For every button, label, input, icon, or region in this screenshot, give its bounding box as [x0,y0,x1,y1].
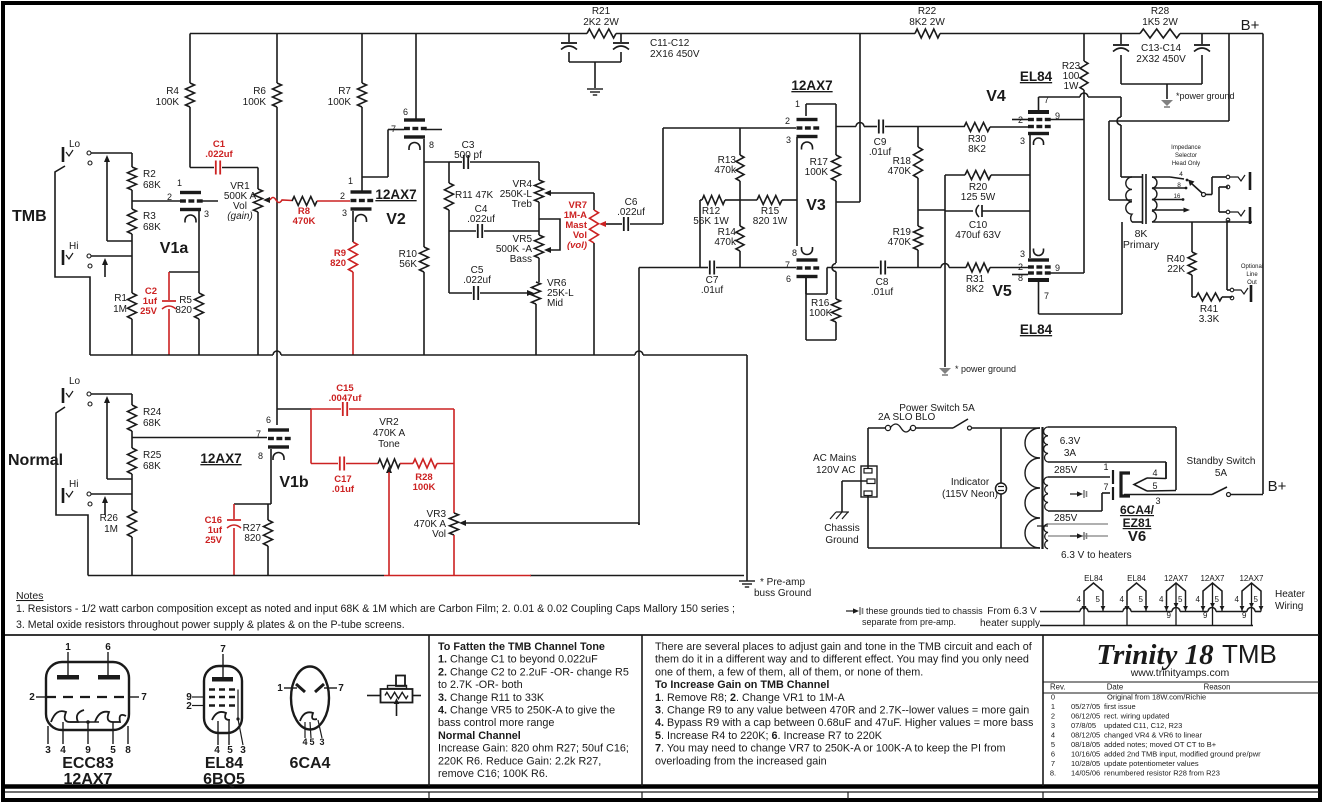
potentiometer VR1 500K A Vol (gain) [257,168,259,190]
wire V3 cathodes common [796,137,798,246]
svg-text:VR2: VR2 [379,417,399,428]
svg-text:25V: 25V [205,535,223,546]
pentode V4 [1028,110,1049,114]
svg-text:.01uf: .01uf [871,287,893,298]
wire R2-R3 junction to grid [131,190,133,209]
potentiometer VR6 25K-L Mid [532,282,541,304]
svg-text:to 2.7K -OR- both: to 2.7K -OR- both [438,679,523,691]
wire C11-C12 join [569,61,621,63]
jack speaker 2 [1226,210,1230,214]
wire B+ vertical right [1262,34,1264,495]
potentiometer VR2 470K A Tone [346,463,378,465]
wire jack1 ring to jack2 tip [1219,186,1228,188]
wire Lo switch arrow [104,155,110,162]
wire secondary tap 4 [1152,176,1170,178]
potentiometer VR7 1M-A Mast Vol (red) [590,210,599,243]
wire V2 pin6 riser [415,34,417,120]
triode V2b (cathode follower) [404,118,425,121]
svg-text:285V: 285V [1054,465,1078,476]
svg-text:AC Mains: AC Mains [813,453,856,464]
svg-text:Bass: Bass [510,254,532,265]
svg-text:12AX7: 12AX7 [375,187,416,202]
wire V2b cathode to tone stack [423,139,425,162]
svg-text:(115V Neon): (115V Neon) [942,489,998,500]
svg-text:4: 4 [1179,171,1183,178]
svg-text:2: 2 [1051,712,1055,721]
svg-text:.022uf: .022uf [463,275,491,286]
svg-text:update potentiometer values: update potentiometer values [1104,759,1199,768]
svg-text:7: 7 [256,429,261,439]
svg-text:Rev.: Rev. [1050,683,1065,692]
svg-text:12AX7: 12AX7 [1200,574,1225,583]
svg-text:5A: 5A [1215,468,1228,479]
svg-text:10/16/05: 10/16/05 [1071,750,1100,759]
svg-text:100K: 100K [809,308,833,319]
svg-text:2: 2 [186,701,192,712]
wire V1a cathode [198,211,200,272]
svg-text:6: 6 [266,415,271,425]
tube base ECC83/12AX7 [46,662,129,730]
plate bar V6 pin1 [1112,470,1114,484]
svg-text:68K: 68K [143,222,161,233]
svg-text:3A: 3A [1064,448,1077,459]
svg-text:TMB: TMB [12,208,47,225]
svg-text:V3: V3 [806,197,826,214]
svg-text:Primary: Primary [1123,239,1160,251]
resistor R40 22K [1191,222,1193,252]
resistor R8 470K (red) [292,197,317,206]
resistor R11 47K [448,162,450,183]
wire VR3 wiper riser to C7 [639,267,700,269]
resistor R23 100 1W [1083,34,1085,62]
svg-text:470K: 470K [888,166,912,177]
svg-text:3. Change R9 to any value bet: 3. Change R9 to any value between 470R a… [655,705,1029,717]
capacitor C17 .01uf (red) [339,457,341,471]
wire secondary tap 16 [1152,199,1182,201]
svg-text:Wiring: Wiring [1275,601,1303,612]
capacitor C8 .01uf [880,261,882,275]
svg-text:1: 1 [348,176,353,186]
wire V6 pin5 [1147,490,1176,493]
svg-text:4: 4 [1152,468,1157,478]
svg-text:B+: B+ [1241,17,1260,34]
svg-text:100K: 100K [243,97,267,108]
power ground (C13-C14) [1161,100,1173,106]
footer divider x=642 [641,792,643,799]
jack speaker 1 [1226,175,1230,179]
svg-text:10/28/05: 10/28/05 [1071,759,1100,768]
svg-text:5: 5 [1254,595,1259,604]
resistor R19 470K [917,210,919,226]
resistor R9 820 (red) [349,242,358,272]
switch power [953,419,968,428]
resistor R2 68K [128,167,137,190]
wire R16 feed [835,202,837,263]
svg-text:3: 3 [45,745,51,756]
wire V1b cathode [270,449,272,504]
normal ground bus red segment [384,575,531,577]
ground (C11-C12) [587,88,603,90]
wire speaker common down to line out [1226,222,1228,290]
svg-text:Lo: Lo [69,376,81,387]
svg-text:3: 3 [786,135,791,145]
svg-text:heater supply: heater supply [980,618,1040,629]
tube base EL84/6BQ5 [204,666,242,733]
svg-text:470uf 63V: 470uf 63V [955,230,1001,241]
preamp ground bus [90,354,273,356]
wire plate-load node to B+ riser [836,201,860,203]
capacitor C3 500pf [449,161,462,163]
wire secondary tap 8 [1152,187,1185,189]
heater winding ground tie [1070,535,1080,537]
svg-text:05/27/05: 05/27/05 [1071,702,1100,711]
svg-text:Impedance: Impedance [1171,145,1201,151]
wire selector to speaker jack 1 [1205,194,1212,196]
plate bar V6 pin7 [1112,487,1114,500]
wire 6.3V loop to V6 heater [1048,426,1176,428]
svg-text:5: 5 [1152,481,1157,491]
svg-text:2: 2 [29,692,35,703]
resistor R18 470K [917,127,919,148]
jack line out [1230,288,1234,292]
svg-text:R22: R22 [918,6,937,17]
normal channel ground bus [88,575,384,577]
svg-text:4: 4 [1051,731,1055,740]
revision table header [1043,681,1319,683]
wire V3a plate jog [805,104,807,116]
svg-text:first issue: first issue [1104,702,1136,711]
heater bus bottom [1040,625,1253,627]
svg-text:1K5 2W: 1K5 2W [1142,17,1178,28]
svg-text:12AX7: 12AX7 [200,451,241,466]
wire R18/R19 node to cathode net [918,209,945,211]
resistor R21 2K2 2W [587,29,616,38]
capacitor C7 .01uf [700,267,708,269]
svg-text:4: 4 [1077,595,1082,604]
capacitor C2 1uf 25V (red) [168,272,170,300]
svg-text:Hi: Hi [69,479,78,490]
svg-text:.01uf: .01uf [701,285,723,296]
svg-text:Chassis: Chassis [824,523,860,534]
svg-text:C11-C12: C11-C12 [650,38,690,49]
svg-text:7: 7 [1044,291,1049,301]
svg-text:buss Ground: buss Ground [754,588,811,599]
svg-text:6CA4/: 6CA4/ [1120,503,1155,517]
resistor R22 8K2 2W [915,29,940,38]
capacitor C12 [620,34,622,43]
svg-text:6: 6 [105,642,111,653]
wire jack ground bracket (Normal) [56,407,88,576]
wire plug middle prong to chassis ground [842,480,867,482]
capacitor C6 .022uf [606,223,622,225]
svg-text:R4: R4 [166,86,179,97]
triode V2a [351,190,372,193]
svg-text:1: 1 [1103,462,1108,472]
resistor R28 100K (red) [400,463,413,465]
wire R30 to V4 grid [990,126,1029,128]
ground (pre-amp buss) [739,580,755,582]
resistor R16 100K [832,299,841,322]
wire heater winding leads [1048,523,1108,525]
wire V4 plate pin7 [1038,97,1040,110]
svg-text:3: 3 [1020,136,1025,146]
svg-text:3: 3 [1020,249,1025,259]
wire V4 cathode [1029,135,1031,175]
svg-text:Normal Channel: Normal Channel [438,730,521,742]
wire R8 to V2 grid (red) [317,200,350,202]
svg-text:470K: 470K [888,237,912,248]
resistor R6 100K [276,34,278,84]
svg-text:820: 820 [244,533,261,544]
svg-text:100K: 100K [805,167,829,178]
svg-text:12AX7: 12AX7 [1164,574,1189,583]
panel divider line above bottom section [5,634,1319,636]
wire plug bottom prong return [867,495,869,548]
resistor R26 1M [131,494,133,510]
wire V3b plate [805,278,807,294]
rectifier V6 filament chevron [1134,478,1147,491]
wire VR1 wiper to R8 (red) [270,198,292,203]
resistor R4 100K [189,34,191,84]
svg-text:8: 8 [1177,182,1181,189]
svg-text:changed VR4 & VR6 to linear: changed VR4 & VR6 to linear [1104,731,1202,740]
wire cathode net ground leg [944,175,946,206]
svg-text:Selector: Selector [1175,153,1197,159]
svg-text:Original from 18W.com/Richie: Original from 18W.com/Richie [1107,693,1206,702]
svg-text:TMB: TMB [1222,639,1277,669]
svg-text:5. Increase R4 to 220K; 6.: 5. Increase R4 to 220K; 6. Increase R7 t… [655,730,883,742]
svg-text:V4: V4 [986,88,1006,105]
svg-text:R28: R28 [1151,6,1170,17]
svg-text:2. Change C2 to 2.2uF -OR- ch: 2. Change C2 to 2.2uF -OR- change R5 [438,666,629,678]
svg-text:them do it in a different way: them do it in a different way and to dif… [655,654,1029,666]
resistor R20 125 5W [945,174,965,176]
svg-text:1M: 1M [104,524,118,535]
wire R24-R25 junction to V1b grid [131,431,133,448]
svg-text:470k: 470k [714,237,737,248]
capacitor C9 .01uf [878,120,880,134]
svg-text:08/18/05: 08/18/05 [1071,740,1100,749]
svg-text:these grounds tied to chassis: these grounds tied to chassis [866,606,983,616]
svg-text:Out: Out [1247,280,1257,286]
svg-text:8K2: 8K2 [966,284,984,295]
wire secondary bottom to jacks/R40 [1152,221,1192,223]
svg-text:* Pre-amp: * Pre-amp [760,577,805,588]
rectifier V6 cathode bracket [1121,473,1130,496]
resistor R5 820 [198,272,200,293]
svg-text:56K: 56K [399,259,417,270]
wire Hi tip to R3 bottom [91,255,132,257]
svg-text:4: 4 [302,737,307,747]
svg-text:12AX7: 12AX7 [64,771,113,788]
indicator neon [1000,428,1002,483]
footer divider x=1043 [1042,792,1044,799]
transformer PT 6.3V winding (rectifier) [1044,427,1048,462]
svg-text:9: 9 [1167,611,1172,620]
wire V6 pin4 [1147,477,1166,480]
wire C15 line (red) [277,408,311,410]
svg-text:100K: 100K [328,97,352,108]
svg-text:added 2nd TMB input, modified: added 2nd TMB input, modified ground pre… [1104,750,1261,759]
svg-text:9: 9 [1055,263,1060,273]
HT center tap ground tie [1070,493,1080,495]
svg-text:V2: V2 [386,211,406,228]
svg-text:2: 2 [167,192,172,202]
wire jack ground bracket (TMB) [55,166,90,355]
wire C8 branch from plate [806,293,827,295]
wire common cathode V4-V5 [1029,175,1031,211]
resistor R24 68K [128,405,137,431]
svg-text:8: 8 [429,140,434,150]
svg-text:4: 4 [1159,595,1164,604]
resistor R25 68K [128,448,137,474]
potentiometer VR4 250K-L Treb [538,162,540,180]
resistor R1 1M [131,256,133,293]
power ground (cathode net) [939,368,951,374]
wire C8 line [827,267,879,269]
triode V3a [797,118,818,121]
svg-text:2: 2 [785,116,790,126]
capacitor C13 [1120,34,1122,45]
svg-text:3: 3 [204,209,209,219]
svg-text:1: 1 [277,683,283,694]
svg-text:4. Bypass R9 with a cap betwe: 4. Bypass R9 with a cap between 0.68uF a… [655,717,1034,729]
triode V1a [180,191,201,194]
svg-text:8K2: 8K2 [968,144,986,155]
svg-text:C13-C14: C13-C14 [1141,43,1181,54]
resistor R31 8K2 [966,263,990,272]
svg-text:8: 8 [125,745,131,756]
wire Lo tip to R24 [91,393,132,395]
svg-text:68K: 68K [143,180,161,191]
svg-text:08/12/05: 08/12/05 [1071,731,1100,740]
svg-text:Lo: Lo [69,139,81,150]
svg-text:R1: R1 [114,293,127,304]
svg-text:2: 2 [340,191,345,201]
heater bus top [1040,611,1080,613]
svg-text:From 6.3 V: From 6.3 V [987,606,1037,617]
triode V1b [268,428,289,431]
fuse [868,427,885,429]
svg-text:Hi: Hi [69,241,78,252]
resistor R27 820 [267,504,269,520]
wire V3a grid from C6 [740,127,796,129]
svg-text:overloading from the increased: overloading from the increased gain [655,755,827,767]
svg-text:12AX7: 12AX7 [1239,574,1264,583]
tube base 6CA4 [291,667,329,730]
svg-text:56K 1W: 56K 1W [693,216,729,227]
svg-text:5: 5 [1051,740,1055,749]
svg-text:ECC83: ECC83 [62,755,114,772]
svg-text:1M: 1M [113,304,127,315]
svg-text:.0047uf: .0047uf [329,393,363,404]
svg-text:7. You may need to change VR7: 7. You may need to change VR7 to 250K-A … [655,743,1006,755]
svg-text:V5: V5 [992,283,1012,300]
wire V6 pin3 to standby [1123,495,1125,497]
resistor R28 1K5 2W (power supply) [1140,29,1180,38]
potentiometer VR3 470K A Vol [453,464,455,514]
wire Hi switch arrow (Normal) [102,496,108,503]
svg-text:updated C11, C12, R23: updated C11, C12, R23 [1104,721,1182,730]
potentiometer icon [396,676,405,687]
svg-text:R24: R24 [143,407,162,418]
wire V2a plate jog to V2b grid [362,176,388,178]
svg-text:2X32 450V: 2X32 450V [1136,54,1186,65]
wire C13-C14 join [1121,83,1202,85]
wire OT primary top lead [1121,176,1132,178]
svg-text:one of them, a few of them, al: one of them, a few of them, all of them,… [655,666,923,678]
svg-text:6: 6 [786,274,791,284]
svg-text:500 pf: 500 pf [454,150,482,161]
wire OT center tap to B+ [1228,34,1230,122]
resistor R15 820 1W [740,199,757,201]
svg-text:1: 1 [795,99,800,109]
svg-text:To Increase Gain on TMB Channe: To Increase Gain on TMB Channel [655,679,829,691]
svg-text:Vol: Vol [432,529,446,540]
wire C9 to R30 [918,126,964,128]
svg-text:3: 3 [1051,721,1055,730]
wire C8 to R31 [918,267,941,269]
svg-text:12AX7: 12AX7 [791,78,832,93]
svg-text:5: 5 [1178,595,1183,604]
svg-text:.022uf: .022uf [205,149,233,160]
transformer PT core [1041,427,1043,549]
svg-text:8.: 8. [1050,769,1056,778]
wire V1a grid stub [201,200,218,202]
svg-text:rect. wiring updated: rect. wiring updated [1104,712,1169,721]
resistor R41 3.3K [1192,296,1196,298]
capacitor C1 .022uf (red) [190,167,214,169]
resistor R12 56K 1W [700,199,702,201]
svg-text:4: 4 [1235,595,1240,604]
transformer OT core [1142,174,1144,224]
transformer PT primary [1025,428,1040,548]
svg-text:820: 820 [175,305,192,316]
svg-text:1W: 1W [1064,81,1080,92]
svg-text:Optional: Optional [1241,264,1263,270]
resistor R30 8K2 [964,123,990,132]
svg-text:1: 1 [177,178,182,188]
wire Hi tip (Normal) [91,493,132,495]
svg-text:Reason: Reason [1204,683,1231,692]
svg-text:4. Change VR5 to 250K-A to gi: 4. Change VR5 to 250K-A to give the [438,705,615,717]
switch standby [1212,487,1227,495]
svg-text:470k: 470k [714,165,737,176]
svg-text:R3: R3 [143,211,156,222]
svg-text:1: 1 [1051,702,1055,711]
B+ supply rail [190,33,587,35]
resistor R7 100K [361,34,363,84]
capacitor C15 .0047uf (red) [342,402,344,416]
wire Lo tip to R2 [91,152,132,154]
svg-text:V1b: V1b [279,474,309,491]
capacitor C14 [1201,34,1203,45]
svg-text:EL84: EL84 [1084,574,1103,583]
pentode V5 (mirrored) [1028,258,1049,261]
svg-text:9: 9 [1203,611,1208,620]
svg-text:Head Only: Head Only [1172,161,1200,167]
svg-text:7: 7 [391,124,396,134]
potentiometer VR5 500K-A Bass [535,235,544,258]
wire V4 plate to OT top [1120,97,1122,117]
wire 285V to V6 plate 1 [1048,476,1110,478]
svg-text:R26: R26 [100,513,119,524]
svg-text:3: 3 [319,737,324,747]
panel thick line above footer strip [5,784,1319,789]
svg-text:.01uf: .01uf [869,147,891,158]
svg-text:470K A: 470K A [373,428,406,439]
svg-text:Heater: Heater [1275,589,1306,600]
